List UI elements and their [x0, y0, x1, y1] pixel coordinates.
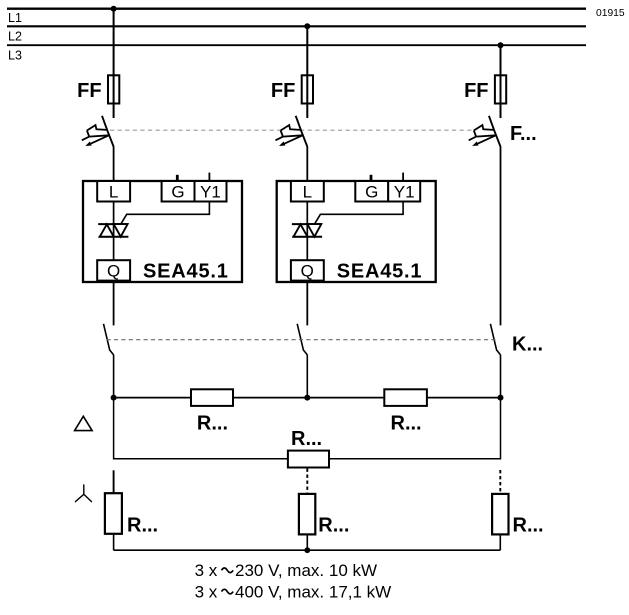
controller U1 SEA45.1 [83, 173, 242, 283]
fuse FF3 [495, 75, 506, 103]
node delta bus branch3 [498, 395, 504, 401]
wire star1 to neutral bus [113, 534, 115, 550]
breaker switch pole 1 [82, 116, 114, 147]
fuse FF2 [302, 75, 313, 103]
svg-text:L: L [109, 183, 118, 202]
phase line L1 [7, 7, 586, 9]
wire branch1 from L1 to breaker [113, 9, 115, 118]
node delta bus branch2 [304, 395, 310, 401]
resistor R31 [288, 451, 329, 468]
svg-text:01915: 01915 [596, 8, 625, 19]
wire breaker2 to SEA2 [306, 147, 308, 182]
phase line L3 [7, 44, 586, 46]
svg-text:L1: L1 [8, 11, 22, 25]
star symbol [75, 484, 92, 502]
delta symbol [75, 416, 93, 430]
resistor RS1 [105, 493, 122, 534]
terminal Q (U1) [97, 260, 130, 280]
svg-text:Q: Q [107, 262, 120, 281]
svg-text:R...: R... [318, 515, 349, 537]
svg-text:R...: R... [197, 413, 228, 435]
node junction L1/branch1 [111, 6, 117, 12]
svg-text:L3: L3 [8, 49, 22, 63]
pin stub G2 [370, 175, 373, 182]
svg-text:230 V, max. 10 kW: 230 V, max. 10 kW [235, 561, 377, 580]
wire breaker3 to contactor3 [500, 147, 502, 326]
wire contactor2 to delta bus [306, 355, 308, 398]
dashed wire to star resistor 2 [306, 469, 308, 495]
neutral bus wire [114, 549, 501, 551]
gate wire Y1 to triac (U1) [121, 202, 209, 224]
svg-text:R...: R... [291, 428, 322, 450]
delta bus wire [114, 397, 501, 399]
terminal G (U2) [355, 181, 388, 202]
triac V2 (U2) [292, 224, 322, 237]
contactor contact K pole 3 [490, 324, 500, 355]
fuse FF1 [108, 75, 119, 103]
pin stub G1 [176, 175, 179, 182]
rating text line 2 [195, 583, 392, 602]
svg-text:L2: L2 [8, 30, 22, 44]
wire internal L to Q (U1) [113, 202, 115, 261]
node delta bus branch1 [111, 395, 117, 401]
svg-text:400 V, max. 17,1 kW: 400 V, max. 17,1 kW [235, 583, 391, 602]
contactor contact K pole 2 [297, 324, 307, 355]
wire star3 to neutral bus [499, 534, 501, 550]
breaker switch pole 3 [469, 116, 501, 147]
node neutral bus branch2 [304, 547, 310, 553]
svg-text:FF: FF [464, 80, 488, 102]
delta lower loop wire [114, 398, 501, 459]
terminal Y1 (U2) [388, 181, 420, 202]
svg-text:3 x: 3 x [195, 583, 218, 602]
pin stub Y1-1 [208, 173, 210, 182]
wire SEA2 to contactor2 [306, 281, 308, 326]
svg-text:Y1: Y1 [200, 183, 221, 202]
svg-text:G: G [365, 183, 378, 202]
controller U2 SEA45.1 [277, 173, 436, 283]
wire delta to star resistor 1 [113, 470, 115, 493]
resistor R12 [191, 389, 233, 406]
resistor R23 [384, 389, 427, 406]
svg-text:Q: Q [301, 262, 314, 281]
terminal Q (U2) [291, 260, 324, 280]
terminal L (U1) [97, 181, 130, 202]
svg-text:R...: R... [127, 515, 158, 537]
resistor RS3 [492, 494, 508, 535]
breaker coupling dashed link [110, 129, 474, 131]
svg-text:L: L [303, 183, 312, 202]
terminal G (U1) [162, 181, 195, 202]
svg-text:G: G [171, 183, 184, 202]
svg-text:FF: FF [271, 80, 295, 102]
phase line L2 [7, 25, 586, 27]
svg-text:SEA45.1: SEA45.1 [337, 261, 423, 283]
wire branch2 from L2 to breaker [306, 26, 308, 118]
triac V1 (U1) [98, 224, 128, 237]
contactor contact K pole 1 [104, 324, 114, 355]
wire internal L to Q (U2) [306, 202, 308, 261]
dashed wire to star resistor 3 [499, 470, 501, 494]
wire branch3 from L3 to breaker [500, 45, 502, 118]
svg-text:K...: K... [512, 333, 543, 355]
pin stub Y1-2 [402, 173, 404, 182]
wire contactor1 to delta bus [113, 355, 115, 398]
terminal Y1 (U1) [195, 181, 227, 202]
wire star2 to neutral bus [306, 534, 308, 550]
svg-text:R...: R... [391, 413, 422, 435]
svg-text:3 x: 3 x [195, 561, 218, 580]
svg-text:Y1: Y1 [394, 183, 415, 202]
wire SEA1 to contactor1 [113, 281, 115, 326]
breaker switch pole 2 [276, 116, 308, 147]
svg-text:F...: F... [510, 123, 537, 145]
wire breaker1 to SEA1 [113, 147, 115, 182]
svg-text:R...: R... [513, 515, 544, 537]
wire contactor3 to delta bus [500, 355, 502, 398]
svg-text:SEA45.1: SEA45.1 [143, 261, 229, 283]
node junction L3/branch3 [498, 42, 504, 48]
contactor coupling dashed link [107, 339, 496, 341]
rating text line 1 [195, 561, 377, 580]
terminal L (U2) [291, 181, 324, 202]
node junction L2/branch2 [304, 23, 310, 29]
svg-text:FF: FF [77, 80, 101, 102]
gate wire Y1 to triac (U2) [315, 202, 404, 224]
resistor RS2 [299, 494, 315, 535]
